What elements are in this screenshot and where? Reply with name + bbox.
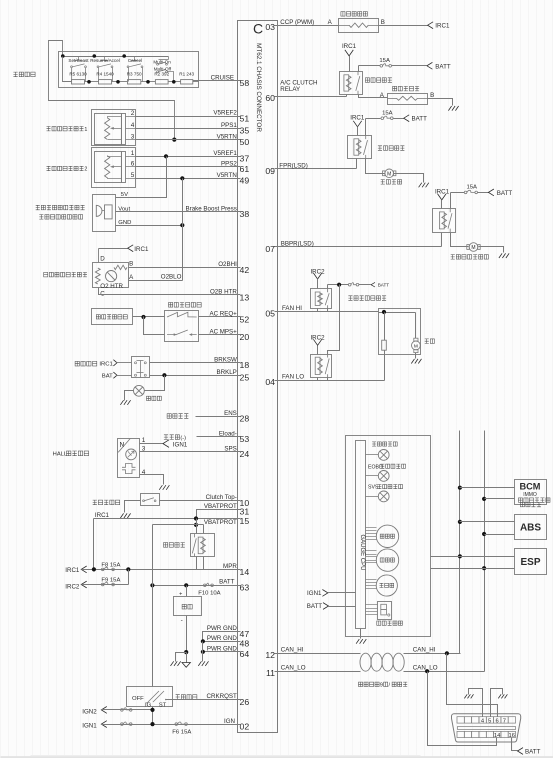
wire OBD pin 5 to ground xyxy=(491,689,503,717)
label main relay (Chinese) xyxy=(164,543,185,548)
net tag BATT at OBD xyxy=(518,748,541,756)
label cruise switch (Chinese) xyxy=(13,72,35,77)
label VBATPROT 15 xyxy=(204,519,237,526)
svg-text:IGN2: IGN2 xyxy=(82,708,97,715)
label IGN xyxy=(224,718,235,725)
label AC MPS+ xyxy=(209,328,237,335)
node resistor row junction 1 xyxy=(87,80,91,84)
label PWR GND 47 xyxy=(207,625,237,632)
wire fuse to BATT tag xyxy=(392,65,427,67)
wire IRC2 to fan-lo coil xyxy=(317,346,319,355)
net tag BAT at brake switch xyxy=(102,372,132,380)
svg-text:O2BHI: O2BHI xyxy=(218,261,237,268)
svg-text:5: 5 xyxy=(488,718,491,724)
svg-text:R3 750: R3 750 xyxy=(127,72,142,77)
pin 10 (left) xyxy=(238,498,250,508)
svg-text:CRUISE: CRUISE xyxy=(211,75,234,82)
label PPS1 xyxy=(221,122,237,129)
node resistor row junction 4 xyxy=(172,80,176,84)
wire BBPR(LSD) from pin 07 xyxy=(278,246,442,248)
fan motor xyxy=(412,338,421,352)
svg-text:RELAY: RELAY xyxy=(280,86,300,93)
svg-text:IGN1: IGN1 xyxy=(82,723,97,730)
wire A/C relay switch to clutch xyxy=(359,95,388,98)
svg-text:51: 51 xyxy=(240,113,250,123)
svg-text:52: 52 xyxy=(240,314,250,324)
svg-text:03: 03 xyxy=(265,22,275,32)
fuse at fan relays xyxy=(348,283,358,286)
wire VBATPROT to pin 15 xyxy=(94,518,238,520)
ground hatched at battery xyxy=(171,661,181,666)
pin 03 (right) xyxy=(265,22,277,32)
wire CRUISE to pin 58 xyxy=(193,81,238,82)
wire fan motor to ground xyxy=(415,353,417,359)
svg-text:IRC1: IRC1 xyxy=(134,246,149,253)
O2 sensor box xyxy=(93,263,129,288)
node junction after F8 xyxy=(126,567,130,571)
svg-text:BATT: BATT xyxy=(435,63,451,70)
net tag IRC2 xyxy=(65,581,86,590)
wire to EOBD lamp xyxy=(366,475,379,477)
label A/C three-state switch (Chinese) xyxy=(169,303,202,308)
wire fan-hi switch bottom xyxy=(327,309,329,312)
svg-text:Brake Boost Press: Brake Boost Press xyxy=(186,205,237,212)
node cruise rail junction 1 xyxy=(61,54,65,58)
wire fan resistor to FAN LO xyxy=(384,351,386,381)
A/C clutch coil xyxy=(388,94,428,105)
wire cluster ground stub xyxy=(360,629,362,639)
wire FP switch to BATT fuse xyxy=(366,118,381,120)
svg-text:V5REF1: V5REF1 xyxy=(213,150,237,157)
svg-text:15A: 15A xyxy=(379,58,390,64)
pin 50 (left) xyxy=(238,137,250,147)
wire FPR(LSD) from pin 09 xyxy=(278,168,357,170)
A/C control panel box xyxy=(92,309,133,325)
wire PWR GND pin 48 xyxy=(203,641,238,643)
wire A/C lower branch xyxy=(144,317,165,335)
wire cruise resistor row left end xyxy=(63,57,72,82)
label FAN HI xyxy=(282,305,302,312)
pin 58 (left) xyxy=(238,78,250,88)
svg-text:O2B HTR: O2B HTR xyxy=(210,289,237,296)
label V5REF1 xyxy=(213,150,237,157)
svg-text:Clutch Top-: Clutch Top- xyxy=(206,494,237,501)
label A/C CLUTCH RELAY xyxy=(280,79,317,93)
label pin 4 xyxy=(142,469,146,476)
node CAN1 to BCM xyxy=(458,486,462,490)
wire 5V to V5REF1 node xyxy=(116,157,167,198)
svg-text:49: 49 xyxy=(240,176,250,186)
node resistor row junction 2 xyxy=(116,80,120,84)
wire panel to switch xyxy=(133,316,165,318)
wire PWR GND pin 47 xyxy=(203,632,238,642)
net tag IRC1 bottom left xyxy=(65,566,86,574)
label pin 1 xyxy=(142,437,146,444)
label CRKRQST xyxy=(207,693,237,700)
fan low relay xyxy=(311,354,332,378)
wire ENS to pin 28 xyxy=(196,416,238,418)
label V5RTN xyxy=(217,133,237,140)
wire A/C CLUTCH RELAY from pin 60 xyxy=(278,96,347,98)
label battery (Chinese) xyxy=(182,604,192,609)
wire pump to ground xyxy=(394,174,424,183)
O2 element resistor to pin B xyxy=(114,265,127,269)
pin 48 (left) xyxy=(238,639,250,649)
wire to cruise lamp xyxy=(366,454,379,456)
wire IG terminal drop xyxy=(152,707,154,725)
label pin 3 xyxy=(142,446,146,453)
wire A/C relay coil bottom xyxy=(346,95,348,97)
label cruise indicator lamp (Chinese) xyxy=(372,442,397,446)
label ST xyxy=(159,703,167,709)
ground at brake lamp xyxy=(120,400,130,405)
wire sensor GND xyxy=(116,225,183,227)
svg-text:IGN1: IGN1 xyxy=(173,441,188,448)
brake lamp xyxy=(134,385,145,396)
svg-text:F10 10A: F10 10A xyxy=(198,591,220,597)
switch Set/Coast xyxy=(71,57,87,82)
wire IRC1 to FP relay coil xyxy=(357,127,359,136)
svg-text:IG: IG xyxy=(145,703,152,709)
page bottom scan band xyxy=(1,755,553,758)
label clutch terminal A xyxy=(380,92,385,99)
pin 13 (left) xyxy=(238,292,250,302)
module ABS box xyxy=(515,515,547,540)
net tag IGN1 at cluster xyxy=(307,590,328,597)
node BRKLP junction xyxy=(162,373,166,377)
label BRKLP xyxy=(217,369,237,376)
svg-text:MT62.1 CHASIS CONNECTOR: MT62.1 CHASIS CONNECTOR xyxy=(255,43,262,132)
wires to fuel meter xyxy=(366,605,378,615)
label GAUGE CPU xyxy=(359,534,365,570)
wire relay feed drop xyxy=(196,519,198,534)
svg-text:IRC2: IRC2 xyxy=(310,335,325,342)
svg-text:PWR GND: PWR GND xyxy=(207,635,237,642)
OBD top pin row xyxy=(457,717,516,723)
label CAN_HI left xyxy=(281,647,304,654)
svg-text:FAN HI: FAN HI xyxy=(282,305,302,312)
label ESP xyxy=(520,557,540,568)
svg-text:05: 05 xyxy=(265,308,275,318)
label Cancel xyxy=(128,58,142,63)
A/C relay xyxy=(340,72,363,95)
pin 61 (left) xyxy=(238,164,250,174)
wire O2BLO to GND net xyxy=(129,280,183,282)
wire battery positive xyxy=(186,586,188,597)
pin 25 (left) xyxy=(238,373,250,383)
net tag IRC2 above fan-lo relay xyxy=(310,335,325,346)
OBD middle bar xyxy=(458,727,516,730)
tachometer gauge xyxy=(376,549,398,571)
fuse F6 15A xyxy=(172,722,191,736)
wire IRC2 row xyxy=(82,584,129,586)
net tag BATT at A/C relay xyxy=(427,62,451,70)
wire BCM CAN_HI lead xyxy=(460,487,515,489)
label terminal A xyxy=(328,19,333,26)
label instant fuel meter (Chinese) xyxy=(377,621,403,625)
net tag IRC1 above BBPR relay xyxy=(435,188,450,200)
wire PPS2 to pin 61 xyxy=(136,166,238,168)
wire IRC1 riser xyxy=(93,519,95,570)
main relay xyxy=(191,534,215,557)
node A/C branch junction xyxy=(141,315,145,319)
label IRC1 net xyxy=(95,512,110,519)
svg-text:BBPR(LSD): BBPR(LSD) xyxy=(281,241,314,248)
ground at fan xyxy=(411,359,421,364)
resistor R3 value 750 xyxy=(127,72,142,84)
wire Brake Boost Press to pin 38 xyxy=(116,211,238,213)
fan high relay xyxy=(311,289,332,309)
net tag BATT at BBPR relay xyxy=(488,189,512,197)
O2 heater resistor xyxy=(95,268,100,284)
HALL box corner slash xyxy=(118,439,130,453)
svg-text:B: B xyxy=(381,19,385,26)
pin 26 (left) xyxy=(238,697,250,707)
svg-text:64: 64 xyxy=(240,649,250,659)
net tag IRC1 above fuel pump relay xyxy=(350,115,365,127)
pin 60 (right) xyxy=(265,93,277,103)
label canister solenoid valve (Chinese) xyxy=(341,12,368,17)
svg-text:IRC1: IRC1 xyxy=(435,23,450,30)
fork to blower/IGN1 nets xyxy=(163,440,169,448)
svg-text:4: 4 xyxy=(131,122,135,129)
node fan BATT junction xyxy=(337,283,341,287)
fuse 15A at A/C relay xyxy=(379,58,391,67)
svg-text:15: 15 xyxy=(240,516,250,526)
wire FAN HI from pin 05 xyxy=(278,311,379,313)
cruise switch enclosure box xyxy=(59,52,199,88)
wire BCM CAN_LO lead xyxy=(485,498,515,500)
svg-text:PWR GND: PWR GND xyxy=(207,646,237,653)
node IRC1 junction before fuse xyxy=(92,567,96,571)
svg-text:Set/Coast: Set/Coast xyxy=(68,58,89,63)
label BCM loads line1 (Chinese) xyxy=(518,498,550,502)
svg-text:7: 7 xyxy=(503,718,506,724)
wire V5REF2 to pin 51 xyxy=(136,116,238,118)
svg-text:BATT: BATT xyxy=(219,579,235,586)
potentiometer pedal sensor 1 xyxy=(105,118,110,140)
svg-text:M: M xyxy=(471,245,475,251)
svg-text:50: 50 xyxy=(240,137,250,147)
label CRUISE xyxy=(211,75,234,82)
wire fan feed internal xyxy=(379,312,416,314)
pin 38 (left) xyxy=(238,209,250,219)
svg-text:BRKSW: BRKSW xyxy=(214,357,237,364)
svg-text:ESP: ESP xyxy=(520,557,540,568)
svg-text:38: 38 xyxy=(240,209,250,219)
pin 20 (left) xyxy=(238,332,250,342)
pin 47 (left) xyxy=(238,629,250,639)
wire CAN_LO to OBD pin 14 xyxy=(428,672,497,746)
label throttle pedal sensor 1 (Chinese) xyxy=(47,127,88,133)
svg-text:V5RTN: V5RTN xyxy=(217,172,237,179)
label fuel cut-off (Chinese) xyxy=(167,414,188,419)
node PWR GND junction 48 xyxy=(201,639,205,643)
label ABS xyxy=(520,522,541,533)
label clutch switch (Chinese) xyxy=(93,500,120,505)
label fuel pump assy (Chinese) xyxy=(381,180,402,185)
wire CAN_LO from pin 11 xyxy=(278,671,361,673)
resistor R4 value 1540 xyxy=(96,72,114,84)
potentiometer pedal sensor 2 xyxy=(105,156,110,178)
ground at vacuum pump xyxy=(499,253,509,258)
pin 53 (left) xyxy=(238,434,250,444)
svg-text:BATT: BATT xyxy=(525,749,541,756)
node GND junction xyxy=(180,223,184,227)
label brake switch (Chinese) xyxy=(75,361,97,366)
wire OBD pin 4 to ground xyxy=(469,689,483,717)
svg-text:1: 1 xyxy=(131,150,135,157)
svg-text:11: 11 xyxy=(266,668,275,678)
svg-text:IRC1: IRC1 xyxy=(342,43,357,50)
svg-text:09: 09 xyxy=(265,166,275,176)
label Set/Coast xyxy=(68,58,89,63)
pin 2 stub xyxy=(126,110,136,117)
ground at cluster xyxy=(356,639,366,644)
cruise indicator lamp xyxy=(378,450,389,461)
label Vout xyxy=(118,206,130,212)
node CAN2 to ESP xyxy=(482,566,486,570)
svg-text:Resume/Accel: Resume/Accel xyxy=(90,58,120,63)
node BATT row junction 2 xyxy=(184,583,188,587)
label pin D xyxy=(100,256,105,263)
svg-text:CAN_LO: CAN_LO xyxy=(281,665,306,672)
label fan (Chinese) xyxy=(425,339,435,344)
pin 31 (left) xyxy=(238,507,250,517)
pedal sensor 1 internal wires xyxy=(108,117,122,140)
pin 4 stub xyxy=(126,122,136,129)
wire BBPR fuse to BATT tag xyxy=(478,192,489,194)
svg-text:53: 53 xyxy=(240,434,250,444)
svg-text:A: A xyxy=(129,274,134,281)
ground at OBD pin 4 xyxy=(464,694,473,698)
wire V5RTN/GND/O2BLO vertical link xyxy=(182,179,184,281)
svg-text:R5 6130: R5 6130 xyxy=(69,72,87,77)
label brake lamp (Chinese) xyxy=(147,396,162,400)
wire AC MPS+ to pin 20 xyxy=(199,334,238,336)
svg-text:1: 1 xyxy=(142,437,146,444)
OBD pin 7 label xyxy=(503,718,506,724)
label CAN_LO left xyxy=(281,665,306,672)
HALL magnet symbol xyxy=(122,464,136,474)
label GND xyxy=(118,220,131,226)
pin 35 (left) xyxy=(238,126,250,136)
wire fan-hi switch riser xyxy=(327,285,329,289)
resistor R1 value 243 xyxy=(179,72,194,84)
wire IGN1 into cluster xyxy=(328,592,356,594)
node battery ground junction xyxy=(184,650,188,654)
OBD bottom pin row xyxy=(457,731,516,737)
wire O2B HTR to pin 13 xyxy=(99,288,238,295)
wire V5RTN to pin 49 xyxy=(136,178,238,180)
brake vacuum sensor box xyxy=(93,195,116,232)
svg-text:R4 1540: R4 1540 xyxy=(96,72,114,77)
wire brake lamp branch xyxy=(145,376,165,391)
svg-text:IRC2: IRC2 xyxy=(65,583,80,590)
net tag BATT at FP relay xyxy=(404,115,427,123)
svg-text:ENS: ENS xyxy=(224,410,237,417)
svg-text:O2 HTR: O2 HTR xyxy=(100,283,123,290)
wire ABS CAN_HI lead xyxy=(460,521,515,523)
svg-text:58: 58 xyxy=(240,78,250,88)
svg-text:12: 12 xyxy=(265,650,275,660)
label heated rear oxygen sensor (Chinese) xyxy=(44,272,87,277)
wire pin 4 to ground xyxy=(140,475,164,485)
wires to temp gauge xyxy=(366,580,377,589)
node IGN1 junction xyxy=(150,722,154,726)
wire BBPR switch to fuse xyxy=(451,192,465,194)
fan assembly box xyxy=(379,309,421,355)
pedal sensor 2 wiper arrow xyxy=(110,165,122,168)
node PWR GND junction 64 xyxy=(201,650,205,654)
wire V5RTN to pin 50 xyxy=(136,139,238,141)
wire battery negative xyxy=(186,616,188,653)
O2 sensing element circle xyxy=(106,271,117,282)
wire OBD pin 16 to BATT xyxy=(512,738,518,751)
svg-text:48: 48 xyxy=(240,639,250,649)
wire fan-lo coil bottom xyxy=(317,378,319,381)
wire relay top link xyxy=(153,524,204,526)
wire BBPR switch output xyxy=(451,233,469,247)
wire battery ground down branch xyxy=(186,653,188,663)
label battery minus xyxy=(181,617,183,624)
wire IRC1 row to MPR pin 14 xyxy=(82,569,238,571)
pin 18 (left) xyxy=(238,360,250,370)
wire cluster to ESP CAN_LO xyxy=(431,568,515,570)
svg-text:EOBD: EOBD xyxy=(368,464,383,470)
svg-text:FPR(LSD): FPR(LSD) xyxy=(279,163,308,170)
pin 11 (right) xyxy=(266,668,278,678)
label O2 HTR xyxy=(100,283,123,290)
label OFF xyxy=(132,696,144,702)
brake vacuum sensor element xyxy=(102,205,113,219)
wire CAN bus vertical 2 xyxy=(484,431,486,672)
wire IGN1 row to pin 02 xyxy=(102,724,238,726)
svg-text:AC REQ+: AC REQ+ xyxy=(209,311,237,318)
switch Multi-On / Multi-Off xyxy=(157,57,174,82)
label pin B xyxy=(129,261,133,268)
wire CAN_HI from pin 12 xyxy=(278,653,361,655)
svg-text:BCM: BCM xyxy=(520,482,541,492)
label O2B HTR xyxy=(210,289,237,296)
svg-text:CCP (PWM): CCP (PWM) xyxy=(280,19,314,26)
wire PWR GND pin 64 xyxy=(203,651,238,653)
svg-text:IGN1: IGN1 xyxy=(307,590,322,597)
label FAN LO xyxy=(282,374,304,381)
fuse 15A at FP relay xyxy=(381,110,393,119)
OBD connector shell xyxy=(452,714,521,742)
wire BATT feed to fan-lo switch xyxy=(328,285,340,355)
label brake booster vacuum pump (Chinese) xyxy=(451,255,489,260)
node relay top junction xyxy=(194,523,198,527)
brake switch box xyxy=(132,357,150,378)
svg-text:BATT: BATT xyxy=(412,116,428,123)
wire relay coil output xyxy=(203,557,205,570)
svg-text:15A: 15A xyxy=(382,110,393,116)
brake vacuum sensor port symbol xyxy=(96,205,102,216)
svg-text:6: 6 xyxy=(131,161,135,168)
wire PPS1 to pin 35 xyxy=(136,128,238,130)
svg-text:15A: 15A xyxy=(467,184,478,190)
wire supply riser x152 xyxy=(152,525,154,586)
svg-text:F9 15A: F9 15A xyxy=(101,578,120,584)
label A/C clutch (Chinese) xyxy=(393,86,420,91)
fuse F8 15A xyxy=(101,563,120,571)
fuel pump relay xyxy=(348,136,372,159)
ground at clutch switch xyxy=(120,513,130,518)
label ENS xyxy=(224,410,237,417)
pin 3 stub xyxy=(126,133,136,140)
